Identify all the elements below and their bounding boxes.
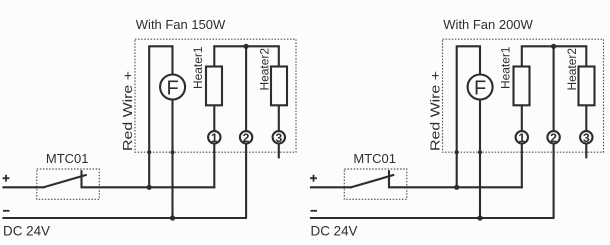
svg-text:Heater1: Heater1 [191,46,205,89]
svg-text:Heater2: Heater2 [565,48,579,91]
svg-text:1: 1 [518,131,525,145]
svg-text:Red Wire +: Red Wire + [120,71,135,151]
svg-text:Heater2: Heater2 [258,48,272,91]
svg-text:2: 2 [243,131,250,145]
svg-text:DC 24V: DC 24V [3,224,50,239]
svg-text:3: 3 [275,131,282,145]
svg-text:3: 3 [583,131,590,145]
svg-text:Heater1: Heater1 [499,46,513,89]
svg-text:With Fan 150W: With Fan 150W [136,17,226,32]
svg-text:DC 24V: DC 24V [311,224,358,239]
svg-text:With Fan 200W: With Fan 200W [443,17,533,32]
svg-text:F: F [166,77,178,99]
svg-text:2: 2 [550,131,557,145]
svg-text:1: 1 [211,131,218,145]
svg-text:Red Wire +: Red Wire + [427,71,442,151]
svg-text:MTC01: MTC01 [353,151,396,166]
svg-text:MTC01: MTC01 [46,151,89,166]
svg-text:F: F [474,77,486,99]
